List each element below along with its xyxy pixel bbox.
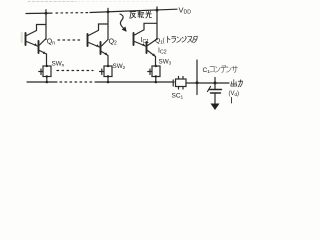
wire bottom rail solid middle [95, 81, 174, 83]
transistor Q1 (B) base bar [146, 42, 148, 53]
transistor Q2 (B) base bar [100, 42, 102, 54]
wire output node vertical [196, 60, 198, 95]
wire cell3 emitter to switch [155, 57, 157, 67]
wire cell1 collector vertical [45, 13, 47, 39]
svg-text:VDD: VDD [179, 6, 192, 16]
svg-text:SC1: SC1 [172, 93, 184, 101]
wire bottom rail right of SC1 [186, 82, 229, 84]
wire dotted between SWn and SW2 [57, 70, 93, 72]
wire bottom rail solid left [27, 81, 57, 83]
wire top rail dotted segment [56, 12, 88, 14]
transistor Q2 (A) base bar [87, 34, 89, 46]
light input arrow (zigzag) [120, 14, 127, 32]
switch SC1 [173, 77, 186, 90]
wire cell2 base loop [89, 24, 109, 36]
node SW3 rail junction [155, 81, 158, 84]
scan artifact faint vertical mark [21, 33, 23, 42]
svg-text:(: ( [163, 37, 166, 44]
svg-text:SW3: SW3 [159, 59, 172, 66]
svg-text:IC2: IC2 [158, 48, 167, 56]
switch SW2 [100, 65, 113, 78]
wire top rail VDD solid left segment [26, 12, 52, 14]
wire SWn to bottom rail [46, 77, 48, 83]
wire cell3 collector vertical [156, 10, 158, 39]
transistor Q2 (B) emitter [102, 52, 109, 56]
label capacitor katakana drawn glyphs [210, 65, 238, 72]
transistor Q1 (B) collector [148, 39, 158, 46]
svg-text:Q2: Q2 [109, 39, 117, 47]
label output drawn glyphs [231, 80, 243, 87]
ground arrow [211, 93, 220, 110]
wire cell2 emitter to switch [107, 56, 109, 67]
transistor Q1 (A) base bar [133, 33, 135, 45]
wire cell2 collector vertical [107, 12, 109, 40]
svg-text:(Vd): (Vd) [229, 91, 240, 97]
transistor Qn (A) emitter [27, 42, 39, 47]
node SW2 rail junction [107, 81, 110, 84]
wire SW3 to bottom rail [155, 77, 157, 83]
node SWn rail junction [46, 81, 49, 84]
wire cell1 base loop [27, 25, 47, 36]
svg-text:IC1: IC1 [141, 37, 150, 45]
label hanten-kou (inverted light) drawn glyphs [130, 11, 152, 18]
node cell2 top junction [107, 8, 110, 13]
transistor Q1 (A) emitter [135, 42, 147, 47]
label tick below Vd [231, 98, 233, 104]
transistor Qn (A) base bar [25, 33, 27, 45]
transistor Q2 (A) emitter [89, 43, 101, 48]
label transistor katakana drawn glyphs [168, 36, 198, 43]
wire dotted between Qn and Q2 [58, 39, 82, 41]
svg-text:Qn: Qn [47, 39, 55, 47]
node output junction [196, 81, 199, 84]
transistor Qn (B) base bar [38, 41, 40, 53]
transistor Q1 (B) emitter [148, 51, 156, 57]
wire bottom rail dotted [60, 81, 95, 83]
wire cell3 base loop [135, 23, 158, 35]
wire cell1 emitter to switch [46, 54, 48, 66]
scan artifact top edge [28, 1, 76, 3]
wire top rail solid right segment [90, 9, 177, 12]
node cell3 top junction [156, 7, 159, 12]
switch SWn [39, 65, 51, 78]
node cell1 top junction [45, 10, 48, 15]
transistor Qn (B) collector [40, 39, 47, 46]
transistor Q2 (B) collector [102, 40, 109, 47]
capacitor C1 [208, 83, 222, 93]
transistor Qn (B) emitter [40, 51, 47, 55]
switch SW3 [148, 65, 160, 78]
svg-text:SWn: SWn [52, 61, 65, 68]
svg-text:C1: C1 [203, 67, 211, 75]
wire SW2 to bottom rail [107, 77, 109, 83]
svg-text:SW2: SW2 [113, 63, 126, 70]
node capacitor junction [214, 78, 217, 85]
